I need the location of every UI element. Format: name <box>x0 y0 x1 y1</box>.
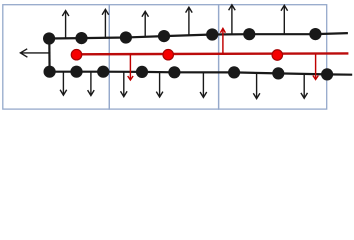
node R2 (red) <box>163 49 174 60</box>
arrow up 2 <box>102 9 109 38</box>
arrow down 4 <box>156 72 163 97</box>
wire: left vertical link <box>48 39 50 72</box>
node B6 <box>228 66 240 78</box>
node T7 <box>309 28 321 40</box>
node B5 <box>168 66 180 78</box>
node B1 <box>44 66 56 78</box>
node T4 <box>158 30 170 42</box>
arrow down 7 <box>301 74 308 98</box>
node T3 <box>120 31 132 43</box>
red arrow down A <box>128 54 133 80</box>
arrow up 6 <box>281 5 288 34</box>
arrow up 1 <box>62 11 69 39</box>
node T1 <box>43 32 55 44</box>
red arrow up B <box>220 28 225 54</box>
node R3 (red) <box>272 50 283 61</box>
arrow down 1 <box>60 72 67 95</box>
node B4 <box>136 66 148 78</box>
node T2 <box>75 32 87 44</box>
wire: top chain <box>49 33 348 38</box>
wire: red chain <box>77 52 349 55</box>
arrow up 4 <box>186 7 193 35</box>
node T6 <box>243 28 255 40</box>
cell box 2 <box>109 5 218 109</box>
cell box 1 <box>3 5 110 109</box>
node T5 <box>206 28 218 40</box>
wire: bottom chain <box>50 72 353 75</box>
node B2 <box>70 66 82 78</box>
red arrow down C <box>313 54 318 79</box>
arrow left <box>20 49 49 57</box>
arrow up 3 <box>142 11 149 37</box>
node B7 <box>272 67 284 79</box>
cell box 3 <box>219 5 327 109</box>
node R1 (red) <box>71 49 82 60</box>
node B8 <box>321 68 333 80</box>
arrow down 5 <box>200 72 207 97</box>
arrow down 3 <box>121 72 128 97</box>
arrow down 6 <box>253 73 260 99</box>
arrow down 2 <box>88 72 95 96</box>
node B3 <box>97 66 109 78</box>
arrow up 5 <box>229 5 236 35</box>
